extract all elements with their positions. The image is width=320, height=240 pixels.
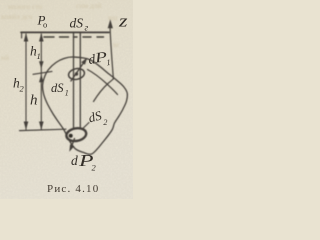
label h1 (30, 44, 41, 62)
inner arc upper right (88, 70, 118, 95)
paper background (0, 0, 133, 199)
svg-text:2: 2 (103, 118, 107, 127)
column right wall (79, 33, 81, 128)
dP2 force arrow shaft (71, 139, 75, 149)
dP1 force arrow shaft (71, 62, 85, 82)
column left wall (73, 33, 75, 129)
liquid volume blob outline (43, 57, 128, 154)
svg-text:d: d (71, 153, 78, 168)
svg-text:dS: dS (70, 16, 84, 31)
svg-text:z: z (118, 12, 128, 31)
svg-text:снм длй: снм длй (76, 1, 102, 10)
h top arrowhead (39, 74, 44, 82)
svg-text:1: 1 (37, 51, 41, 61)
dS2 surface element ellipse (65, 127, 87, 143)
svg-text:г: г (85, 24, 89, 34)
svg-text:нплого сто: нплого сто (8, 2, 43, 11)
label dS2 (87, 107, 108, 126)
dP2 arrowhead (69, 144, 74, 152)
dS2 knot dot (69, 134, 73, 138)
dS2 label leader line (83, 123, 90, 129)
svg-text:o: o (43, 20, 47, 30)
h2 top arrowhead (24, 33, 29, 42)
svg-text:вш: вш (108, 13, 118, 22)
z axis line (110, 25, 113, 79)
label dP1 (87, 49, 111, 70)
h1 top arrowhead (39, 33, 44, 42)
svg-text:1: 1 (65, 89, 69, 98)
svg-text:нй: нй (1, 53, 9, 62)
dS1 level tick line (33, 71, 52, 74)
svg-text:вг: вг (113, 40, 120, 49)
dS1 surface element ellipse (68, 67, 86, 81)
h1-h dimension line (40, 34, 42, 130)
label P0 (37, 13, 48, 30)
label dS1 (51, 81, 69, 98)
surface line left end tick (21, 32, 23, 38)
water level dashes (44, 36, 104, 38)
surface line (21, 31, 109, 33)
label dP2 (71, 151, 97, 173)
h2 dimension line (25, 34, 27, 130)
dS2 level tick line (20, 129, 67, 130)
h bottom arrowhead (39, 122, 44, 131)
dS1 center dot (75, 72, 78, 75)
h1 bottom arrowhead (39, 61, 44, 69)
label h2 (13, 76, 25, 94)
label dS_g (70, 16, 89, 34)
dP1 arrowhead (81, 58, 87, 65)
svg-text:dS: dS (51, 81, 64, 95)
svg-text:h: h (30, 93, 38, 109)
svg-text:Рис. 4.10: Рис. 4.10 (47, 183, 99, 195)
paper grain (0, 0, 133, 199)
ghost show-through text top (1, 1, 120, 62)
inner arc rising to z (94, 79, 114, 102)
svg-text:впяйл дсч: впяйл дсч (1, 12, 33, 21)
h2 bottom arrowhead (24, 122, 29, 131)
z axis arrowhead (108, 19, 113, 28)
